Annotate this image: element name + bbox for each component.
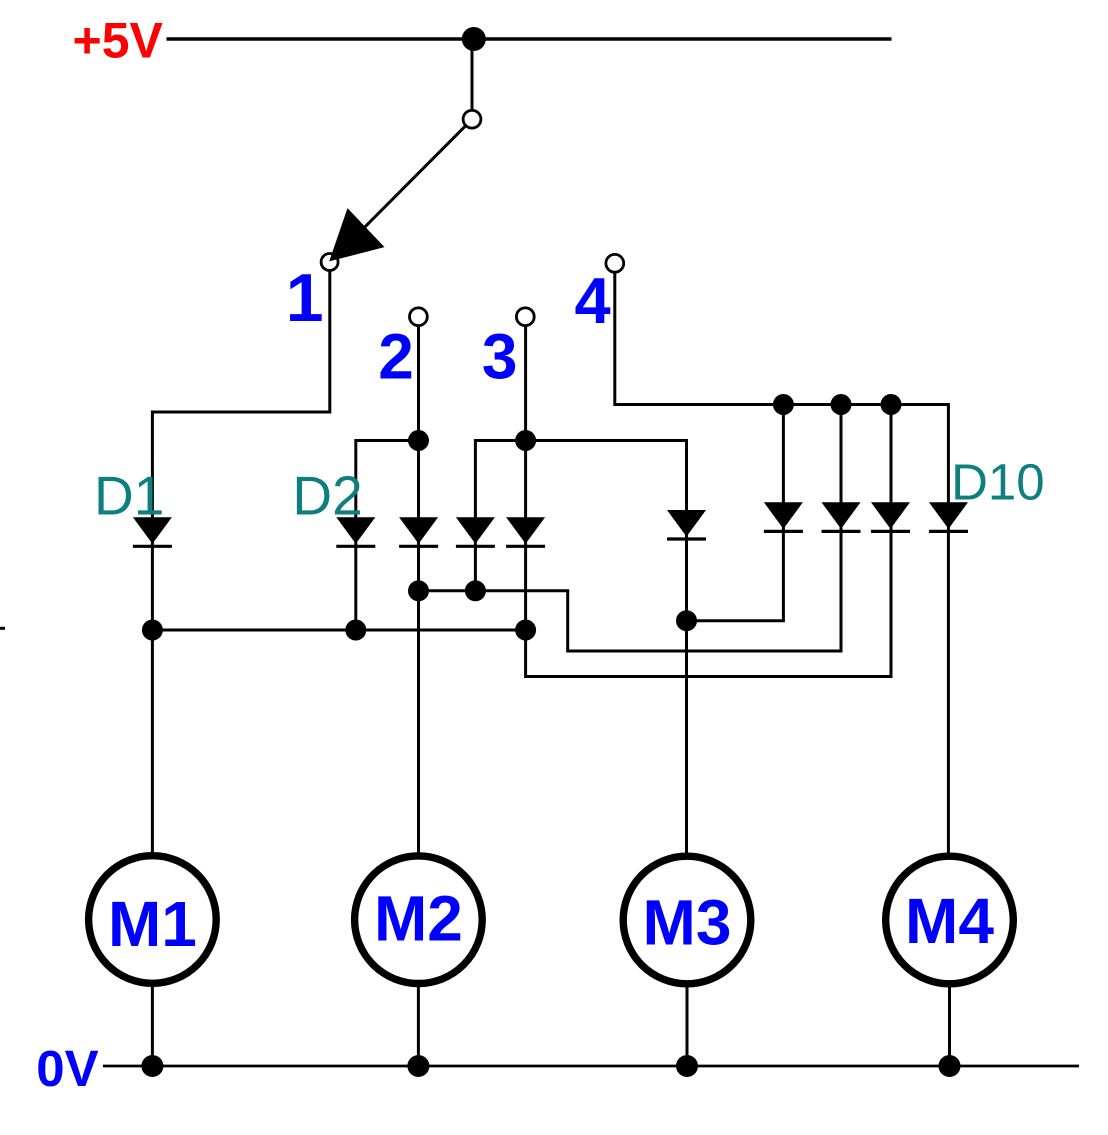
svg-text:1: 1 [286, 260, 324, 336]
svg-text:M3: M3 [643, 887, 732, 959]
svg-text:4: 4 [575, 264, 611, 337]
svg-text:D10: D10 [951, 454, 1045, 511]
svg-text:M1: M1 [108, 888, 197, 960]
svg-text:M2: M2 [374, 883, 463, 955]
svg-text:D2: D2 [292, 465, 362, 527]
svg-text:M4: M4 [905, 885, 994, 957]
svg-text:0V: 0V [36, 1040, 98, 1097]
svg-text:+5V: +5V [73, 12, 164, 68]
svg-text:2: 2 [378, 321, 414, 393]
svg-text:D1: D1 [94, 465, 164, 527]
svg-text:3: 3 [482, 321, 518, 393]
